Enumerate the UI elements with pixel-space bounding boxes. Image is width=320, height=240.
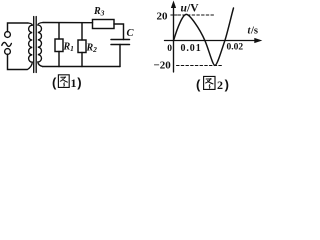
resistor R1 branch wire top	[58, 23, 60, 39]
label R2	[86, 43, 98, 55]
AC input terminal top	[5, 32, 11, 38]
svg-text:(: (	[196, 77, 201, 92]
svg-text:C: C	[127, 28, 135, 39]
svg-text:0.02: 0.02	[227, 43, 244, 53]
label -20	[154, 60, 172, 72]
capacitor C bottom lead wire	[119, 45, 121, 67]
svg-text:): )	[77, 75, 81, 90]
label R3	[93, 6, 105, 18]
svg-text:(: (	[52, 75, 57, 90]
capacitor C bottom plate	[111, 44, 130, 46]
resistor R2 branch wire top	[81, 23, 83, 40]
svg-text:2: 2	[217, 78, 223, 92]
resistor R1	[55, 39, 63, 52]
label 0.01	[181, 43, 202, 54]
dashed line at +20	[178, 14, 215, 16]
svg-text:R2: R2	[86, 43, 98, 55]
resistor R3	[93, 20, 115, 29]
AC input terminal bottom	[5, 49, 11, 55]
capacitor C top plate	[111, 39, 130, 41]
svg-text:20: 20	[157, 10, 169, 22]
svg-text:0.01: 0.01	[181, 43, 202, 54]
x axis arrowhead	[254, 38, 262, 43]
svg-text:/V: /V	[186, 2, 199, 14]
label 0	[167, 44, 172, 54]
wire secondary bottom	[43, 66, 121, 68]
label 0.02	[227, 43, 244, 53]
svg-text:−20: −20	[154, 60, 172, 72]
label C	[127, 28, 135, 39]
dashed line at -20	[177, 65, 223, 67]
transformer core	[34, 17, 37, 73]
tick 20	[171, 14, 177, 16]
label (图1)	[52, 75, 82, 90]
svg-text:1: 1	[71, 76, 77, 90]
svg-text:/s: /s	[250, 26, 258, 37]
sine curve	[174, 8, 234, 65]
label (图2)	[196, 76, 229, 92]
y axis arrowhead	[171, 1, 176, 9]
label u/V	[181, 2, 200, 14]
resistor R1 wire bottom	[58, 52, 60, 67]
svg-text:R3: R3	[93, 6, 105, 18]
x axis	[165, 40, 259, 42]
label t/s	[248, 26, 259, 37]
transformer primary coil	[28, 23, 33, 70]
resistor R2	[78, 40, 86, 53]
wire R3 to capacitor	[114, 24, 124, 40]
wire primary bottom	[8, 54, 28, 69]
label 20	[157, 10, 169, 22]
label R1	[63, 42, 74, 54]
svg-text:R1: R1	[63, 42, 74, 54]
svg-text:0: 0	[167, 44, 172, 54]
wire secondary top	[43, 22, 93, 24]
resistor R2 wire bottom	[81, 53, 83, 67]
transformer secondary coil	[38, 23, 43, 67]
svg-text:): )	[225, 77, 229, 92]
wire primary top	[8, 23, 29, 32]
AC tilde symbol	[2, 42, 12, 46]
y axis	[173, 4, 175, 73]
